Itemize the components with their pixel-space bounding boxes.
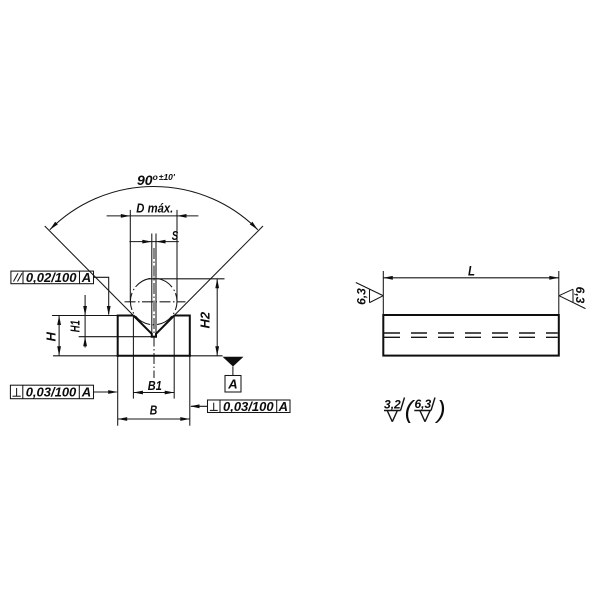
svg-text:6,3: 6,3: [355, 288, 369, 305]
svg-text:6,3: 6,3: [414, 397, 431, 411]
svg-text:H: H: [43, 331, 58, 341]
svg-text:0,03/100: 0,03/100: [26, 385, 77, 400]
svg-text:0,03/100: 0,03/100: [223, 399, 274, 414]
svg-text:S: S: [172, 228, 179, 243]
svg-text:H2: H2: [198, 311, 213, 328]
svg-text:6,3: 6,3: [573, 287, 587, 304]
svg-text:A: A: [81, 385, 91, 400]
svg-text:A: A: [278, 399, 288, 414]
svg-text:B: B: [150, 403, 158, 418]
svg-text:90o±10': 90o±10': [137, 172, 176, 188]
svg-text:A: A: [81, 270, 91, 285]
svg-text:0,02/100: 0,02/100: [26, 270, 77, 285]
svg-text:3,2: 3,2: [384, 398, 401, 412]
svg-text:): ): [434, 396, 445, 424]
svg-text:D máx.: D máx.: [136, 200, 173, 215]
svg-text:B1: B1: [148, 378, 162, 393]
svg-text:H1: H1: [68, 320, 83, 332]
svg-text:L: L: [468, 263, 475, 279]
svg-text:A: A: [227, 377, 237, 392]
